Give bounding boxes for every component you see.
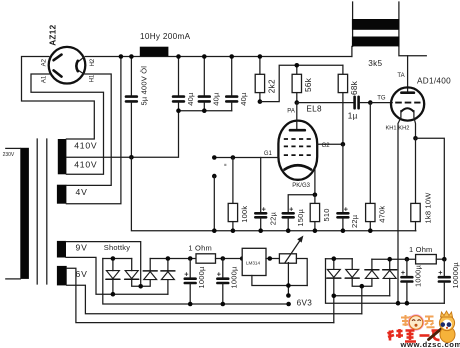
- svg-text:+: +: [289, 204, 293, 213]
- node AC rail D1: [111, 292, 116, 297]
- wire EL8 cathode: [288, 169, 315, 213]
- svg-text:A1: A1: [42, 75, 48, 83]
- choke L1 10Hy 200mA: [140, 47, 169, 57]
- svg-text:G2: G2: [322, 143, 331, 149]
- wire pot wiper down: [287, 263, 289, 296]
- svg-text:KH1: KH1: [386, 125, 397, 131]
- svg-text:470k: 470k: [378, 206, 387, 223]
- triode V3 AD1/400 envelope: [391, 87, 424, 120]
- regulator U1: [242, 248, 266, 275]
- svg-text:22µ: 22µ: [268, 212, 277, 226]
- diode D6: [345, 259, 362, 287]
- svg-text:AZ12: AZ12: [49, 24, 58, 45]
- resistor R4 100k grid leak: [228, 158, 237, 231]
- wire input lower to ground bus: [213, 176, 215, 231]
- secondary winding 9V: [57, 241, 66, 258]
- wire heater H2 / B+ top rail: [85, 56, 352, 58]
- wire filament leg KH2: [414, 111, 416, 139]
- node filament plus: [442, 257, 447, 262]
- watermark pen stroke: [429, 327, 445, 340]
- watermark face ball: [408, 314, 424, 330]
- wire G2 to 68k: [317, 143, 343, 145]
- svg-text:5µ 400V Öl: 5µ 400V Öl: [140, 66, 149, 106]
- capacitor C9 1000u left a: [185, 259, 196, 305]
- wire 230V bottom lead: [6, 278, 20, 280]
- svg-text:3k5: 3k5: [368, 59, 382, 68]
- wire 40u bottom bus: [179, 110, 232, 112]
- wire right minus drop and bus: [326, 259, 445, 304]
- wire right bridge plus rail: [372, 258, 416, 260]
- EL8 grid row 1: [284, 138, 312, 140]
- wire primary left lead to B+: [351, 46, 353, 56]
- svg-text:PA: PA: [287, 108, 295, 114]
- svg-text:+: +: [438, 268, 442, 277]
- svg-text:56k: 56k: [304, 77, 313, 92]
- node regulator in: [240, 256, 245, 261]
- EL8 anode plate: [290, 129, 305, 132]
- svg-text:www.dzsc.com: www.dzsc.com: [400, 340, 460, 348]
- wire grid line to AD1: [370, 102, 392, 104]
- capacitor C6 22u screen bypass: [338, 144, 349, 230]
- node minus cap2: [221, 302, 226, 307]
- wire 9V top tap to bridge midpoint: [66, 242, 141, 287]
- svg-text:100k: 100k: [240, 206, 249, 223]
- node ground 150u: [286, 228, 291, 233]
- secondary winding 4V: [57, 185, 67, 204]
- AD1 anode plate: [401, 91, 414, 94]
- node ground 510: [313, 228, 318, 233]
- svg-text:+: +: [184, 269, 188, 278]
- svg-text:+: +: [262, 204, 266, 213]
- svg-text:Shottky: Shottky: [104, 243, 130, 252]
- wire heater H1 to 4V top tap: [66, 74, 111, 185]
- resistor R1 2k2: [255, 57, 264, 102]
- capacitor C5 1u coupling: [355, 97, 371, 108]
- node center tap junction: [129, 155, 134, 160]
- svg-text:KH2: KH2: [398, 125, 409, 131]
- wire HV center tap to ground: [66, 111, 178, 158]
- node input lower terminal: [212, 174, 217, 179]
- svg-text:+: +: [344, 204, 348, 213]
- node rail-40u c: [229, 54, 234, 59]
- capacitor C10 1000u left b: [217, 259, 228, 305]
- capacitor C1 5u 400V: [126, 57, 137, 158]
- svg-text:1 Ohm: 1 Ohm: [409, 245, 433, 254]
- svg-text:PK/G3: PK/G3: [292, 183, 310, 189]
- resistor R3 68k: [338, 65, 347, 144]
- svg-text:22µ: 22µ: [350, 214, 359, 228]
- svg-text:1000µ: 1000µ: [414, 265, 423, 287]
- wire 9V bottom tap to bridge AC rail: [66, 257, 168, 294]
- diode D8: [383, 259, 397, 296]
- node adj junction: [286, 283, 291, 288]
- resistor R9 1 Ohm right: [416, 255, 445, 264]
- svg-text:1k8 10W: 1k8 10W: [424, 192, 433, 224]
- EL8 grid row 2: [284, 145, 312, 147]
- diode D5: [327, 259, 341, 296]
- svg-text:410V: 410V: [74, 140, 97, 150]
- node bridge midpoint right: [360, 284, 365, 289]
- resistor R7 1k8 10W: [411, 138, 420, 230]
- resistor R8 1 Ohm left: [196, 254, 242, 263]
- svg-text:6V: 6V: [76, 269, 88, 279]
- svg-text:510: 510: [322, 208, 331, 221]
- diode D2: [125, 259, 141, 287]
- primary winding 230V: [20, 148, 29, 279]
- node ground 22u screen: [341, 228, 346, 233]
- diode D3: [141, 259, 158, 287]
- svg-text:1 Ohm: 1 Ohm: [188, 243, 212, 252]
- diode D1: [106, 259, 120, 295]
- wire bridge plus rail to regulator: [150, 258, 196, 260]
- capacitor C11 1000u right: [402, 259, 413, 303]
- capacitor C8 150u cathode: [283, 213, 294, 230]
- node KH2 junction: [413, 136, 418, 141]
- node plus 1000u right: [405, 257, 410, 262]
- node 2k2 bottom: [258, 99, 263, 104]
- node ground 470k: [368, 228, 373, 233]
- svg-text:+: +: [401, 268, 405, 277]
- node bridge midpoint left: [138, 284, 143, 289]
- node plus cap2: [221, 256, 226, 261]
- capacitor C12 10000u: [439, 259, 450, 303]
- diode D4: [161, 259, 175, 295]
- svg-text:410V: 410V: [74, 159, 97, 169]
- wire KH2 to filament supply plus: [416, 138, 445, 259]
- node G2 junction: [341, 142, 346, 147]
- wire 2k2 to driver supply rail: [260, 65, 343, 101]
- svg-text:6V3: 6V3: [297, 298, 313, 307]
- watermark red text weiku: [388, 329, 442, 342]
- svg-text:+: +: [217, 269, 221, 278]
- wire EL8 anode to coupling cap: [297, 102, 354, 104]
- wire minus drop and bottom bus: [103, 259, 289, 305]
- resistor R6 470k grid leak AD1: [366, 103, 375, 231]
- svg-text:4V: 4V: [76, 187, 88, 197]
- node cathode junction: [313, 193, 318, 198]
- EL8 cathode arc: [285, 165, 312, 169]
- pentode V2 EL8 envelope: [278, 121, 317, 180]
- svg-text:H2: H2: [90, 58, 96, 66]
- svg-text:10000µ: 10000µ: [451, 262, 460, 289]
- node 6V3 plus terminal: [286, 293, 291, 298]
- node rail-40u a: [176, 54, 181, 59]
- node ground 100k: [231, 228, 236, 233]
- node EL8 anode junction: [295, 100, 300, 105]
- node plus D8: [387, 257, 392, 262]
- node plus cap1: [188, 256, 193, 261]
- svg-text:1µ: 1µ: [348, 112, 358, 121]
- svg-text:TG: TG: [377, 95, 386, 101]
- EL8 grid row 3: [284, 154, 312, 156]
- secondary winding 410V: [58, 139, 67, 174]
- wire 6V bottom tap long run: [67, 285, 362, 314]
- node rail-5u: [129, 54, 134, 59]
- svg-text:H1: H1: [89, 74, 95, 82]
- wire anode A2 to 410V top tap: [22, 57, 95, 140]
- capacitor C2 40u first: [173, 57, 184, 111]
- node driver rail 56k: [295, 63, 300, 68]
- secondary winding 6V: [57, 266, 67, 286]
- svg-text:68k: 68k: [350, 80, 359, 95]
- node rail-2k2: [258, 54, 263, 59]
- node G1 100k junction: [231, 155, 236, 160]
- wire right bridge AC riser 2: [333, 296, 335, 323]
- node 40u bus b: [202, 108, 207, 113]
- wire main ground bus left drop: [131, 157, 415, 230]
- power transformer T1 core: [37, 139, 47, 284]
- node 6V3 minus terminal: [286, 302, 291, 307]
- capacitor C4 40u third: [226, 57, 237, 111]
- node ground input: [212, 228, 217, 233]
- node G1 input terminal: [212, 155, 217, 160]
- svg-text:2k2: 2k2: [268, 79, 277, 93]
- node minus cap1: [188, 302, 193, 307]
- svg-text:TA: TA: [397, 73, 404, 79]
- node rail-4V: [119, 54, 124, 59]
- wire anode A1 to 410V bottom tap: [31, 74, 104, 174]
- node regulator out: [268, 256, 273, 261]
- stray mark: [224, 164, 226, 166]
- potentiometer P1: [279, 236, 303, 264]
- wire filament leg KH1: [398, 111, 401, 303]
- capacitor C7 22u input: [255, 158, 266, 231]
- watermark mascot: [439, 311, 455, 343]
- wire 6V top tap long run: [67, 268, 334, 322]
- svg-text:10Hy 200mA: 10Hy 200mA: [140, 32, 191, 41]
- wire right bridge AC riser 1: [361, 286, 363, 314]
- node ground 22u: [258, 228, 263, 233]
- AD1 filament arch: [401, 108, 414, 112]
- output transformer T2: [352, 2, 400, 46]
- resistor R2 56k: [292, 65, 301, 102]
- AD1 grid dashes: [395, 102, 420, 104]
- svg-text:EL8: EL8: [306, 104, 322, 113]
- wire rail to 4V bottom tap: [66, 57, 121, 204]
- wire regulator adj: [252, 276, 307, 286]
- watermark row1 glyphs: [401, 315, 435, 327]
- node KH1 return: [396, 301, 401, 306]
- svg-text:A2: A2: [42, 58, 48, 66]
- svg-text:150µ: 150µ: [296, 208, 305, 226]
- wire primary right lead: [399, 46, 426, 55]
- resistor R5 510 cathode: [310, 195, 319, 231]
- node TG grid junction: [368, 100, 373, 105]
- svg-text:40µ: 40µ: [212, 92, 221, 106]
- svg-text:40µ: 40µ: [186, 92, 195, 106]
- wire G1 line: [214, 157, 278, 159]
- node AC rail D5: [332, 294, 337, 299]
- svg-text:1000µ: 1000µ: [197, 266, 206, 288]
- svg-text:AD1/400: AD1/400: [417, 77, 451, 86]
- wire TA anode drop: [407, 56, 409, 91]
- svg-text:40µ: 40µ: [239, 92, 248, 106]
- svg-text:9V: 9V: [76, 243, 88, 253]
- wire right bridge minus rail: [326, 258, 353, 260]
- svg-text:G1: G1: [264, 151, 273, 157]
- wire 230V top lead: [6, 147, 20, 149]
- node minus 1000u right: [405, 301, 410, 306]
- rectifier tube V1 AZ12: [49, 47, 86, 84]
- svg-text:230V: 230V: [3, 152, 15, 158]
- EL8 anode pin wire PA: [296, 103, 298, 129]
- diode D7: [362, 259, 379, 286]
- node minus D1: [111, 256, 116, 261]
- wire pot right to adj bus: [296, 259, 307, 286]
- svg-text:LM314: LM314: [246, 260, 260, 265]
- wire bridge minus rail: [103, 258, 132, 260]
- capacitor C3 40u second: [199, 57, 210, 111]
- svg-text:1000µ: 1000µ: [229, 266, 238, 288]
- node rail-40u b: [202, 54, 207, 59]
- wire right bridge AC rail: [334, 295, 390, 297]
- node 40u bus a: [176, 108, 181, 113]
- wire regulator out: [266, 258, 279, 260]
- node plus D4: [166, 256, 171, 261]
- node minus D5: [332, 256, 337, 261]
